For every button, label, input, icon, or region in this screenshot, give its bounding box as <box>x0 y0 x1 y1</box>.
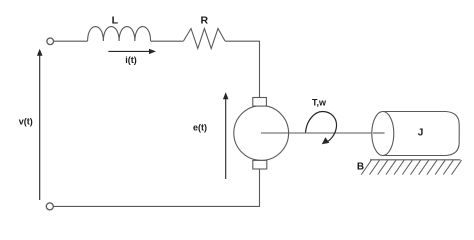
torque rotation arrow <box>306 112 337 143</box>
wire resistor to motor (corner) <box>225 41 260 97</box>
shaft tip inside face <box>373 132 385 134</box>
wire inductor to resistor <box>151 40 184 42</box>
inductor L <box>88 27 151 41</box>
svg-text:i(t): i(t) <box>125 55 137 65</box>
svg-text:L: L <box>112 15 119 27</box>
svg-text:v(t): v(t) <box>19 116 33 126</box>
current arrow i(t) <box>108 50 150 52</box>
svg-text:B: B <box>357 162 364 173</box>
motor shaft <box>261 132 385 134</box>
brush rect bottom <box>253 160 267 169</box>
e(t) arrow <box>225 99 227 180</box>
terminal circle bottom-left <box>46 203 53 210</box>
terminal circle top-left <box>47 38 54 45</box>
svg-text:e(t): e(t) <box>193 122 207 132</box>
inertia cylinder left face <box>372 112 394 156</box>
friction hatch lines <box>361 160 461 174</box>
svg-text:R: R <box>201 15 209 27</box>
bottom wire motor to terminal <box>53 169 259 206</box>
inertia cylinder body <box>383 112 459 156</box>
motor circle M <box>234 106 289 161</box>
v(t) source arrow <box>39 55 41 201</box>
resistor R <box>184 29 226 49</box>
svg-text:J: J <box>418 128 424 139</box>
friction ground line <box>370 159 460 161</box>
svg-text:T,w: T,w <box>312 98 327 108</box>
wire terminal to inductor <box>54 40 88 42</box>
brush rect top <box>253 98 267 107</box>
